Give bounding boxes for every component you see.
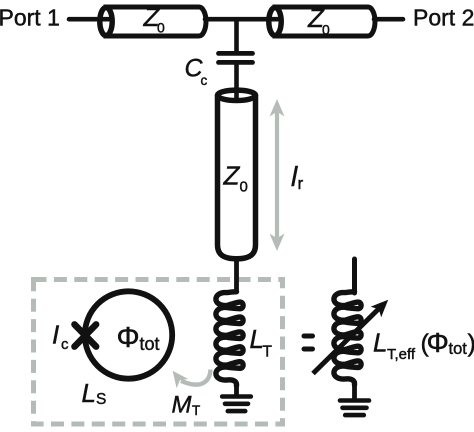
svg-text:I: I — [52, 320, 59, 350]
svg-text:Φ: Φ — [117, 322, 140, 354]
svg-text:M: M — [172, 392, 192, 419]
svg-text:c: c — [201, 73, 208, 88]
svg-text:0: 0 — [157, 20, 165, 36]
svg-text:S: S — [96, 391, 106, 408]
svg-text:0: 0 — [240, 179, 248, 196]
svg-text:Φ: Φ — [427, 327, 449, 358]
svg-text:T: T — [263, 344, 273, 361]
svg-text:r: r — [298, 174, 304, 193]
svg-text:tot: tot — [140, 334, 160, 354]
svg-text:T: T — [192, 403, 200, 418]
svg-text:0: 0 — [322, 22, 330, 38]
svg-text:tot: tot — [449, 340, 468, 358]
svg-text:Z: Z — [223, 161, 241, 191]
svg-text:c: c — [61, 336, 69, 353]
svg-text:L: L — [82, 378, 96, 408]
svg-text:T,eff: T,eff — [387, 346, 416, 363]
svg-text:): ) — [468, 330, 474, 358]
svg-text:L: L — [373, 328, 387, 358]
svg-text:Port 2: Port 2 — [413, 5, 474, 31]
svg-text:Port 1: Port 1 — [0, 5, 60, 31]
